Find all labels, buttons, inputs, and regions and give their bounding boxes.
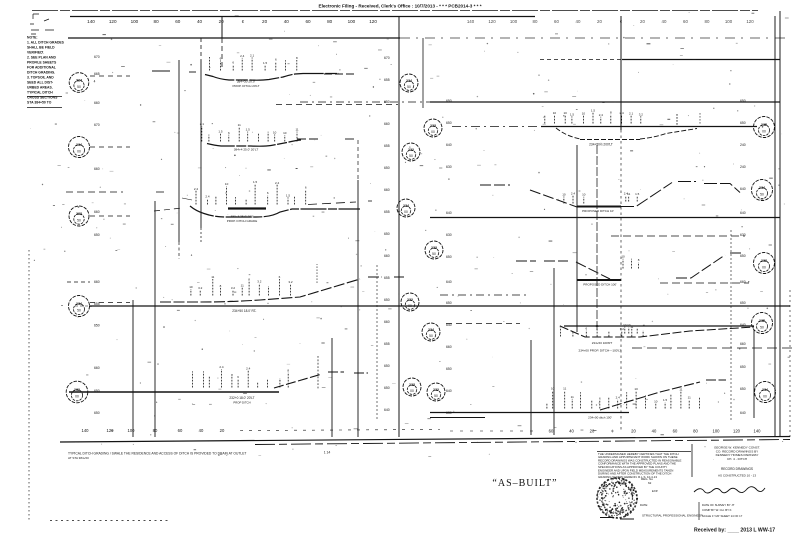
station circle right column 3	[754, 253, 775, 274]
svg-text:50: 50	[760, 326, 764, 330]
svg-text:50: 50	[407, 85, 411, 89]
svg-text:¢: ¢	[611, 429, 614, 434]
svg-text:FOR ADDITIONAL: FOR ADDITIONAL	[27, 66, 56, 70]
svg-text:80: 80	[154, 19, 160, 24]
right panel left elevation column	[446, 99, 452, 415]
svg-text:00: 00	[431, 130, 435, 134]
horizontal grid line y38	[68, 37, 400, 39]
right dashed line y236	[611, 235, 745, 237]
svg-text:50: 50	[760, 193, 764, 197]
svg-text:660: 660	[384, 122, 390, 126]
left section row4 ticks	[190, 289, 192, 296]
svg-text:00: 00	[410, 389, 414, 393]
svg-text:11: 11	[688, 396, 691, 400]
row3 right dashes	[308, 202, 356, 205]
svg-text:8: 8	[638, 258, 640, 262]
right section row1 ditch profile	[556, 128, 697, 140]
svg-text:2.4: 2.4	[599, 113, 604, 117]
svg-text:50: 50	[77, 218, 81, 222]
svg-text:240: 240	[740, 165, 746, 169]
station circle right column 5	[755, 382, 776, 403]
svg-text:60: 60	[175, 19, 181, 24]
station circle 384+50 (left row1)	[69, 73, 89, 93]
svg-text:1.5: 1.5	[218, 130, 223, 134]
svg-text:140: 140	[467, 19, 475, 24]
svg-text:650: 650	[384, 298, 390, 302]
svg-text:100: 100	[131, 19, 139, 24]
right horizontal line y59	[622, 59, 780, 61]
svg-text:100: 100	[348, 19, 356, 24]
vertical grid line x531	[530, 340, 532, 435]
vertical dashed x731	[730, 230, 732, 420]
svg-text:234+50 18.0' RT: 234+50 18.0' RT	[232, 309, 256, 313]
svg-text:PROFILE SHEETS: PROFILE SHEETS	[27, 61, 57, 65]
station circle right column 2	[752, 180, 773, 201]
svg-text:1.5: 1.5	[635, 192, 640, 196]
svg-text:50: 50	[432, 252, 436, 256]
svg-text:670: 670	[384, 56, 390, 60]
notes underlines	[27, 96, 62, 98]
svg-text:11: 11	[679, 388, 682, 392]
station circle right column 4	[752, 313, 773, 334]
svg-text:1.5: 1.5	[263, 61, 268, 65]
station circle mid column 3	[402, 143, 420, 161]
left section row2 ticks	[201, 126, 203, 141]
right border double line	[774, 16, 776, 437]
svg-text:10: 10	[189, 285, 193, 289]
svg-text:650: 650	[94, 233, 100, 237]
svg-text:10: 10	[634, 387, 638, 391]
svg-text:140: 140	[82, 428, 90, 433]
svg-text:232: 232	[407, 298, 413, 302]
block divider vertical	[691, 444, 693, 477]
svg-text:50: 50	[77, 85, 81, 89]
right section row1 leader dashes	[452, 126, 541, 128]
bottom dashed double line	[255, 440, 790, 445]
svg-text:384+50 20.0': 384+50 20.0'	[237, 80, 256, 84]
svg-text:PROPOSED DITCH 10': PROPOSED DITCH 10'	[582, 209, 614, 213]
vertical grid line x155	[154, 201, 156, 437]
long horizontal line y306	[89, 305, 790, 307]
left section row3 ticks	[195, 191, 197, 205]
engineer circular seal	[597, 478, 637, 518]
left section row3 ground profile	[190, 206, 360, 217]
svg-text:6: 6	[585, 326, 587, 330]
svg-text:SHALL BE FIELD: SHALL BE FIELD	[27, 46, 55, 50]
svg-text:640: 640	[384, 408, 390, 412]
svg-text:140: 140	[87, 19, 95, 24]
svg-text:60: 60	[673, 429, 678, 434]
svg-text:11: 11	[563, 387, 566, 391]
svg-text:¢: ¢	[242, 19, 245, 24]
station circle left row2	[69, 137, 90, 158]
svg-text:650: 650	[384, 166, 390, 170]
svg-text:COMP BY W. CH. BY: COMP BY W. CH. BY K	[702, 508, 732, 512]
svg-text:650: 650	[446, 301, 452, 305]
svg-text:80: 80	[533, 19, 538, 24]
svg-text:40: 40	[652, 429, 657, 434]
svg-text:10: 10	[225, 182, 229, 186]
left section row3 label	[228, 207, 266, 209]
svg-text:SEED ALL DIST-: SEED ALL DIST-	[27, 81, 53, 85]
svg-text:50: 50	[409, 154, 413, 158]
bottom left ruler fade dashes	[240, 430, 440, 431]
svg-text:120: 120	[369, 19, 377, 24]
svg-text:8: 8	[248, 277, 250, 281]
svg-text:00: 00	[75, 395, 79, 399]
title table lines	[698, 502, 700, 520]
svg-text:2.4: 2.4	[571, 192, 576, 196]
right panel right elevation column	[740, 99, 746, 415]
svg-text:3.2: 3.2	[639, 112, 644, 116]
station circle mid column 7	[422, 323, 440, 341]
svg-text:2.4: 2.4	[194, 187, 199, 191]
svg-text:650: 650	[740, 254, 746, 258]
dashed separator y192	[66, 191, 123, 193]
svg-text:60: 60	[554, 19, 559, 24]
right section row2 V profile	[480, 185, 577, 207]
left row1 650 dashes	[276, 104, 398, 106]
svg-text:6: 6	[232, 61, 234, 65]
right section row5 ticks	[546, 403, 548, 408]
svg-text:00: 00	[762, 266, 766, 270]
svg-text:2.4: 2.4	[275, 181, 280, 185]
vertical grid line x358	[357, 140, 359, 180]
svg-text:100: 100	[128, 428, 136, 433]
svg-text:232+0 18.0' 20'LT: 232+0 18.0' 20'LT	[229, 396, 254, 400]
svg-text:10: 10	[654, 399, 658, 403]
svg-text:640: 640	[446, 211, 452, 215]
right section row4 under profile	[560, 326, 754, 337]
top border dashed line	[32, 10, 758, 12]
station circle mid column 9	[427, 383, 445, 401]
svg-text:2.1: 2.1	[200, 122, 205, 126]
svg-text:630: 630	[446, 165, 452, 169]
svg-text:RECORD DRAWINGS: RECORD DRAWINGS	[721, 467, 753, 471]
svg-text:650: 650	[740, 301, 746, 305]
svg-text:655: 655	[384, 144, 390, 148]
left section row2 ground profile	[207, 140, 301, 146]
svg-text:10: 10	[562, 193, 566, 197]
svg-text:40: 40	[197, 19, 203, 24]
svg-text:234+50½ 200'LT: 234+50½ 200'LT	[589, 143, 613, 147]
right dashed line y283	[660, 282, 749, 284]
svg-text:6: 6	[305, 186, 307, 190]
vertical grid line x133	[132, 300, 134, 437]
svg-text:660: 660	[94, 210, 100, 214]
svg-text:233: 233	[430, 124, 436, 128]
svg-text:DATE OF SURVEY BY: DATE OF SURVEY BY JT	[702, 503, 735, 507]
svg-text:Electronic Filing - Received,: Electronic Filing - Received, Clerk's Of…	[319, 4, 482, 9]
right section row3 bottom ticks	[622, 259, 624, 269]
svg-text:100: 100	[725, 19, 733, 24]
left section row1 ground profile	[205, 74, 339, 81]
svg-text:120: 120	[109, 19, 117, 24]
svg-text:660: 660	[94, 366, 100, 370]
right section row2 flat bottom bar	[577, 206, 621, 208]
top ruler line left panel	[70, 16, 535, 18]
station circle mid column 2	[424, 119, 442, 137]
station circle mid column 6	[401, 293, 419, 311]
svg-text:383+3 25.0' 200': 383+3 25.0' 200'	[231, 215, 254, 219]
svg-text:8: 8	[296, 56, 298, 60]
svg-text:11: 11	[630, 325, 633, 329]
svg-text:PROP. DITCH 20'LT: PROP. DITCH 20'LT	[233, 84, 260, 88]
svg-text:STRUCTURAL PROFESSIONAL ENGI: STRUCTURAL PROFESSIONAL ENGINEER	[642, 514, 703, 518]
svg-text:234: 234	[406, 79, 412, 83]
svg-text:234: 234	[759, 186, 765, 190]
svg-text:10: 10	[553, 111, 557, 115]
bottom right ruler numbers	[549, 429, 761, 434]
svg-text:40: 40	[576, 19, 581, 24]
main panel divider x399	[398, 16, 400, 437]
vertical grid line x554	[553, 268, 555, 435]
svg-text:650: 650	[94, 411, 100, 415]
svg-text:640: 640	[446, 389, 452, 393]
left section row4 rising ground dashed	[160, 277, 404, 302]
svg-text:CH. 4 - DITCH: CH. 4 - DITCH	[727, 457, 747, 461]
svg-text:20: 20	[597, 19, 602, 24]
svg-text:234: 234	[762, 388, 768, 392]
svg-text:10: 10	[621, 255, 625, 259]
vertical x754	[753, 330, 755, 418]
svg-text:2.4: 2.4	[205, 195, 210, 199]
right section row4 leader dashes	[446, 323, 520, 325]
right section row1 ticks	[544, 115, 546, 124]
svg-text:233: 233	[431, 246, 437, 250]
svg-text:655: 655	[384, 342, 390, 346]
center-left elevation numbers column (left panel right edge)	[384, 56, 390, 412]
svg-text:40: 40	[569, 429, 574, 434]
svg-text:6: 6	[267, 191, 269, 195]
svg-text:120: 120	[733, 429, 741, 434]
svg-text:120: 120	[488, 19, 496, 24]
svg-text:10: 10	[551, 387, 555, 391]
svg-text:660: 660	[94, 280, 100, 284]
right section row4 under ticks	[559, 329, 561, 337]
svg-text:650: 650	[740, 121, 746, 125]
vertical grid line x597	[596, 145, 598, 332]
svg-text:8: 8	[220, 284, 222, 288]
svg-text:3.2: 3.2	[231, 286, 236, 290]
left section row1 ticks	[209, 57, 211, 71]
svg-text:233: 233	[409, 383, 415, 387]
svg-text:1.5: 1.5	[591, 109, 596, 113]
svg-text:3.2: 3.2	[198, 286, 203, 290]
svg-text:8: 8	[287, 368, 289, 372]
svg-text:6: 6	[228, 131, 230, 135]
svg-text:234+00 ditch 100': 234+00 ditch 100'	[588, 416, 612, 420]
svg-text:660: 660	[384, 254, 390, 258]
svg-text:2.4: 2.4	[219, 365, 224, 369]
svg-text:660: 660	[94, 101, 100, 105]
svg-text:234: 234	[76, 302, 82, 306]
station circle mid column 4	[397, 199, 415, 217]
svg-text:232: 232	[433, 388, 439, 392]
left section row5 ticks	[192, 371, 194, 387]
svg-text:234+50 100'RT: 234+50 100'RT	[592, 341, 613, 345]
svg-text:655: 655	[384, 276, 390, 280]
vertical grid line x222	[221, 16, 223, 38]
svg-text:11: 11	[238, 123, 241, 127]
svg-text:10: 10	[582, 112, 586, 116]
svg-text:1.5: 1.5	[663, 398, 668, 402]
left elevation numbers column	[94, 55, 100, 415]
svg-text:660: 660	[446, 345, 452, 349]
station circle left row4	[69, 296, 90, 317]
svg-text:00: 00	[763, 395, 767, 399]
right panel top offset numbers	[467, 19, 754, 24]
title block text right	[714, 446, 760, 461]
svg-text:NOTE:: NOTE:	[27, 36, 38, 40]
bottom left ruler numbers	[82, 428, 225, 433]
svg-text:1 14: 1 14	[324, 451, 331, 455]
svg-text:URBED AREAS.: URBED AREAS.	[27, 86, 53, 90]
svg-text:650: 650	[94, 324, 100, 328]
svg-text:3.2: 3.2	[257, 279, 262, 283]
svg-text:60: 60	[178, 428, 183, 433]
general notes text block	[27, 36, 65, 105]
right section row2 bottom ticks	[563, 197, 565, 204]
svg-text:8: 8	[231, 373, 233, 377]
svg-text:10: 10	[273, 131, 277, 135]
svg-text:120: 120	[746, 19, 754, 24]
svg-text:640: 640	[446, 143, 452, 147]
left part of bottom right ruler dashes	[450, 430, 540, 432]
svg-text:DITCH GRADING.: DITCH GRADING.	[27, 71, 55, 75]
svg-text:AS CONSTRUCTED 10 - 13: AS CONSTRUCTED 10 - 13	[718, 474, 756, 478]
right section row5 ground line	[430, 412, 629, 414]
svg-text:650: 650	[446, 255, 452, 259]
svg-text:2.4: 2.4	[240, 54, 245, 58]
svg-text:660: 660	[384, 320, 390, 324]
svg-text:20: 20	[640, 19, 645, 24]
svg-text:11: 11	[241, 284, 244, 288]
svg-text:11: 11	[295, 128, 298, 132]
svg-text:10: 10	[627, 323, 631, 327]
svg-text:660: 660	[740, 280, 746, 284]
svg-text:655: 655	[384, 78, 390, 82]
svg-text:384+4 25.0' 20'LT: 384+4 25.0' 20'LT	[234, 148, 259, 152]
svg-text:1.5: 1.5	[253, 180, 258, 184]
svg-text:00: 00	[404, 210, 408, 214]
svg-text:60: 60	[683, 19, 688, 24]
svg-text:100: 100	[713, 429, 721, 434]
svg-text:665: 665	[94, 72, 100, 76]
svg-text:233: 233	[76, 212, 82, 216]
bottom border line	[60, 437, 790, 443]
svg-text:1.5: 1.5	[570, 112, 575, 116]
right row1 extra ticks right	[699, 113, 701, 125]
svg-text:234+00 PROP. DITCH—100'LT: 234+00 PROP. DITCH—100'LT	[578, 349, 621, 353]
left row5 tall dotted tick	[317, 356, 319, 389]
svg-text:234: 234	[428, 328, 434, 332]
right section row3 flat bottom bar	[577, 279, 621, 281]
svg-text:DATE:: DATE:	[640, 503, 648, 507]
right section row4 ground line	[564, 325, 754, 327]
svg-text:232: 232	[408, 148, 414, 152]
svg-text:80: 80	[153, 428, 158, 433]
svg-text:PROP DITCH: PROP DITCH	[233, 401, 250, 405]
svg-text:6: 6	[220, 57, 222, 61]
vertical grid line x201	[200, 38, 202, 60]
left section row5 ground line	[69, 391, 279, 393]
svg-text:650: 650	[384, 386, 390, 390]
svg-text:62: 62	[648, 481, 652, 485]
svg-text:650: 650	[446, 121, 452, 125]
svg-text:3.2: 3.2	[620, 327, 625, 331]
svg-text:4: 4	[94, 80, 96, 84]
svg-text:10: 10	[283, 131, 287, 135]
vertical grid line x423	[422, 38, 424, 108]
station circle mid column 5	[425, 241, 443, 259]
leader dash y295	[440, 294, 527, 296]
svg-text:1.5: 1.5	[246, 128, 251, 132]
svg-text:Received by: ____ 2013 L WW-17: Received by: ____ 2013 L WW-17	[694, 528, 775, 533]
svg-text:240: 240	[740, 143, 746, 147]
svg-text:“AS–BUILT”: “AS–BUILT”	[492, 478, 557, 489]
svg-text:50: 50	[429, 334, 433, 338]
svg-text:11: 11	[596, 324, 599, 328]
svg-text:40: 40	[284, 19, 290, 24]
right section row5 rising dashed	[600, 380, 726, 410]
svg-text:VERIFIED.: VERIFIED.	[27, 51, 44, 55]
svg-text:AT STA 384+50: AT STA 384+50	[68, 456, 89, 460]
svg-text:650: 650	[740, 365, 746, 369]
svg-text:6: 6	[275, 58, 277, 62]
svg-text:120: 120	[107, 428, 115, 433]
svg-text:2.4: 2.4	[616, 395, 621, 399]
svg-text:3.2: 3.2	[288, 280, 293, 284]
svg-text:80: 80	[327, 19, 333, 24]
svg-text:3. TOPSOIL AND: 3. TOPSOIL AND	[27, 76, 54, 80]
svg-text:40: 40	[662, 19, 667, 24]
svg-text:60: 60	[305, 19, 311, 24]
svg-text:6: 6	[279, 275, 281, 279]
vertical grid line x577	[576, 145, 578, 332]
station circle mid column 1	[400, 74, 418, 92]
svg-text:80: 80	[693, 429, 698, 434]
station circle left row3	[69, 206, 89, 226]
left margin dotted border	[28, 250, 30, 520]
svg-text:630: 630	[740, 233, 746, 237]
signature squiggle	[694, 487, 765, 493]
vertical grid line x332	[331, 338, 333, 437]
station circle left row5	[66, 381, 88, 403]
right edge dashes	[789, 290, 791, 437]
station circle mid column 8	[403, 378, 421, 396]
svg-text:11: 11	[571, 395, 574, 399]
leader dashes from left circles	[90, 75, 130, 77]
svg-text:SCALE 1"=20' SHEET 14: SCALE 1"=20' SHEET 14 OF 17	[702, 514, 743, 518]
left row4 tall dotted tick	[316, 264, 318, 283]
right long line y102	[430, 101, 780, 103]
scan noise speckles	[30, 12, 790, 460]
svg-text:640: 640	[740, 411, 746, 415]
svg-text:00: 00	[762, 130, 766, 134]
svg-text:11: 11	[211, 275, 214, 279]
svg-text:650: 650	[384, 232, 390, 236]
right section row3 V profile	[516, 253, 743, 279]
svg-text:20: 20	[220, 428, 225, 433]
svg-text:00: 00	[77, 150, 81, 154]
right section row1 ground line	[541, 126, 757, 128]
svg-text:STA 384+50 TO: STA 384+50 TO	[27, 101, 52, 105]
svg-text:2.1: 2.1	[629, 112, 634, 116]
svg-text:234: 234	[76, 143, 82, 147]
right long line y217	[430, 217, 780, 219]
svg-text:50: 50	[77, 309, 81, 313]
